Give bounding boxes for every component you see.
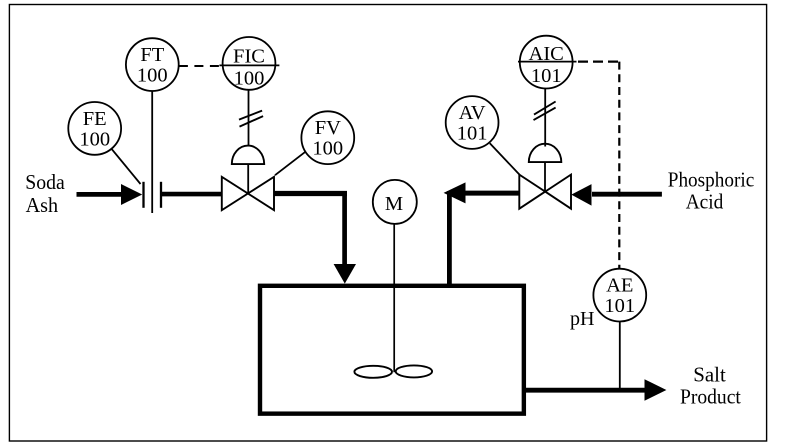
FIC panel midline [219,64,279,66]
pipe valve AV to left arrow [462,191,519,196]
svg-text:FE: FE [83,108,107,130]
AIC panel midline [518,61,577,63]
svg-text:101: 101 [457,123,488,145]
flow arrow at elbow [444,182,466,203]
impeller left blade [354,366,392,378]
flow arrow into tank [334,264,356,284]
svg-text:FT: FT [140,44,164,66]
svg-text:Soda: Soda [25,170,65,194]
svg-text:FIC: FIC [233,45,265,67]
flow arrow salt product [645,379,667,401]
leader AV to valve [490,143,520,175]
pipe phosphoric acid into valve AV [592,192,662,197]
instrument bubble AV 101 [446,96,499,149]
FT tap line [151,91,153,213]
svg-text:Product: Product [680,385,741,409]
pipe orifice to valve FV [162,192,222,197]
svg-text:100: 100 [312,138,343,160]
signal dashed AIC to corner [578,60,620,62]
svg-text:101: 101 [531,65,562,87]
signal dashed corner down to AE [618,62,620,269]
svg-text:M: M [385,193,403,215]
pipe salt product outlet [522,388,646,393]
valve FV actuator dome [232,146,264,165]
instrument bubble FIC 100 [223,37,276,90]
pipe elbow down to tank [342,191,347,265]
instrument bubble AE 101 [593,269,646,322]
svg-text:Phosphoric: Phosphoric [668,168,755,192]
mixer shaft [393,224,395,372]
tank [260,286,524,414]
svg-text:101: 101 [604,295,635,317]
flow arrow into orifice [121,184,142,205]
instrument bubble FT 100 [126,38,179,91]
instrument bubble AIC 101 [520,36,573,89]
pipe valve FV to elbow [274,191,347,196]
signal line AIC to AV actuator [544,89,546,147]
flow arrow into valve AV [571,184,591,206]
valve AV stem [544,162,546,192]
svg-text:100: 100 [137,65,168,87]
svg-text:AV: AV [459,102,486,124]
svg-text:100: 100 [79,128,110,150]
impeller right blade [396,365,432,377]
control valve AV body [519,175,545,209]
pipe elbow down into tank [447,191,452,285]
pipe soda ash inlet [77,192,124,197]
AE sensing line to outlet pipe [619,322,621,391]
double slash on FIC signal [239,111,262,120]
valve AV actuator dome [529,144,562,162]
svg-text:Salt: Salt [693,363,726,387]
instrument bubble FE 100 [68,102,121,155]
svg-text:pH: pH [570,308,595,330]
svg-text:100: 100 [234,67,265,89]
motor bubble M [373,180,417,224]
orifice plate FE flange bars [142,182,144,208]
leader FE to orifice [112,149,141,184]
control valve FV body [222,177,248,210]
instrument bubble FV 100 [301,111,354,164]
svg-text:Acid: Acid [686,190,724,214]
svg-text:FV: FV [315,117,341,139]
signal dashed FT to FIC [179,65,223,67]
svg-text:Ash: Ash [26,193,59,217]
valve FV stem [247,164,249,193]
leader FV to valve [275,152,306,176]
double slash on AIC signal [534,102,556,115]
svg-text:AE: AE [606,275,633,297]
signal line FIC to FV actuator [248,90,250,149]
